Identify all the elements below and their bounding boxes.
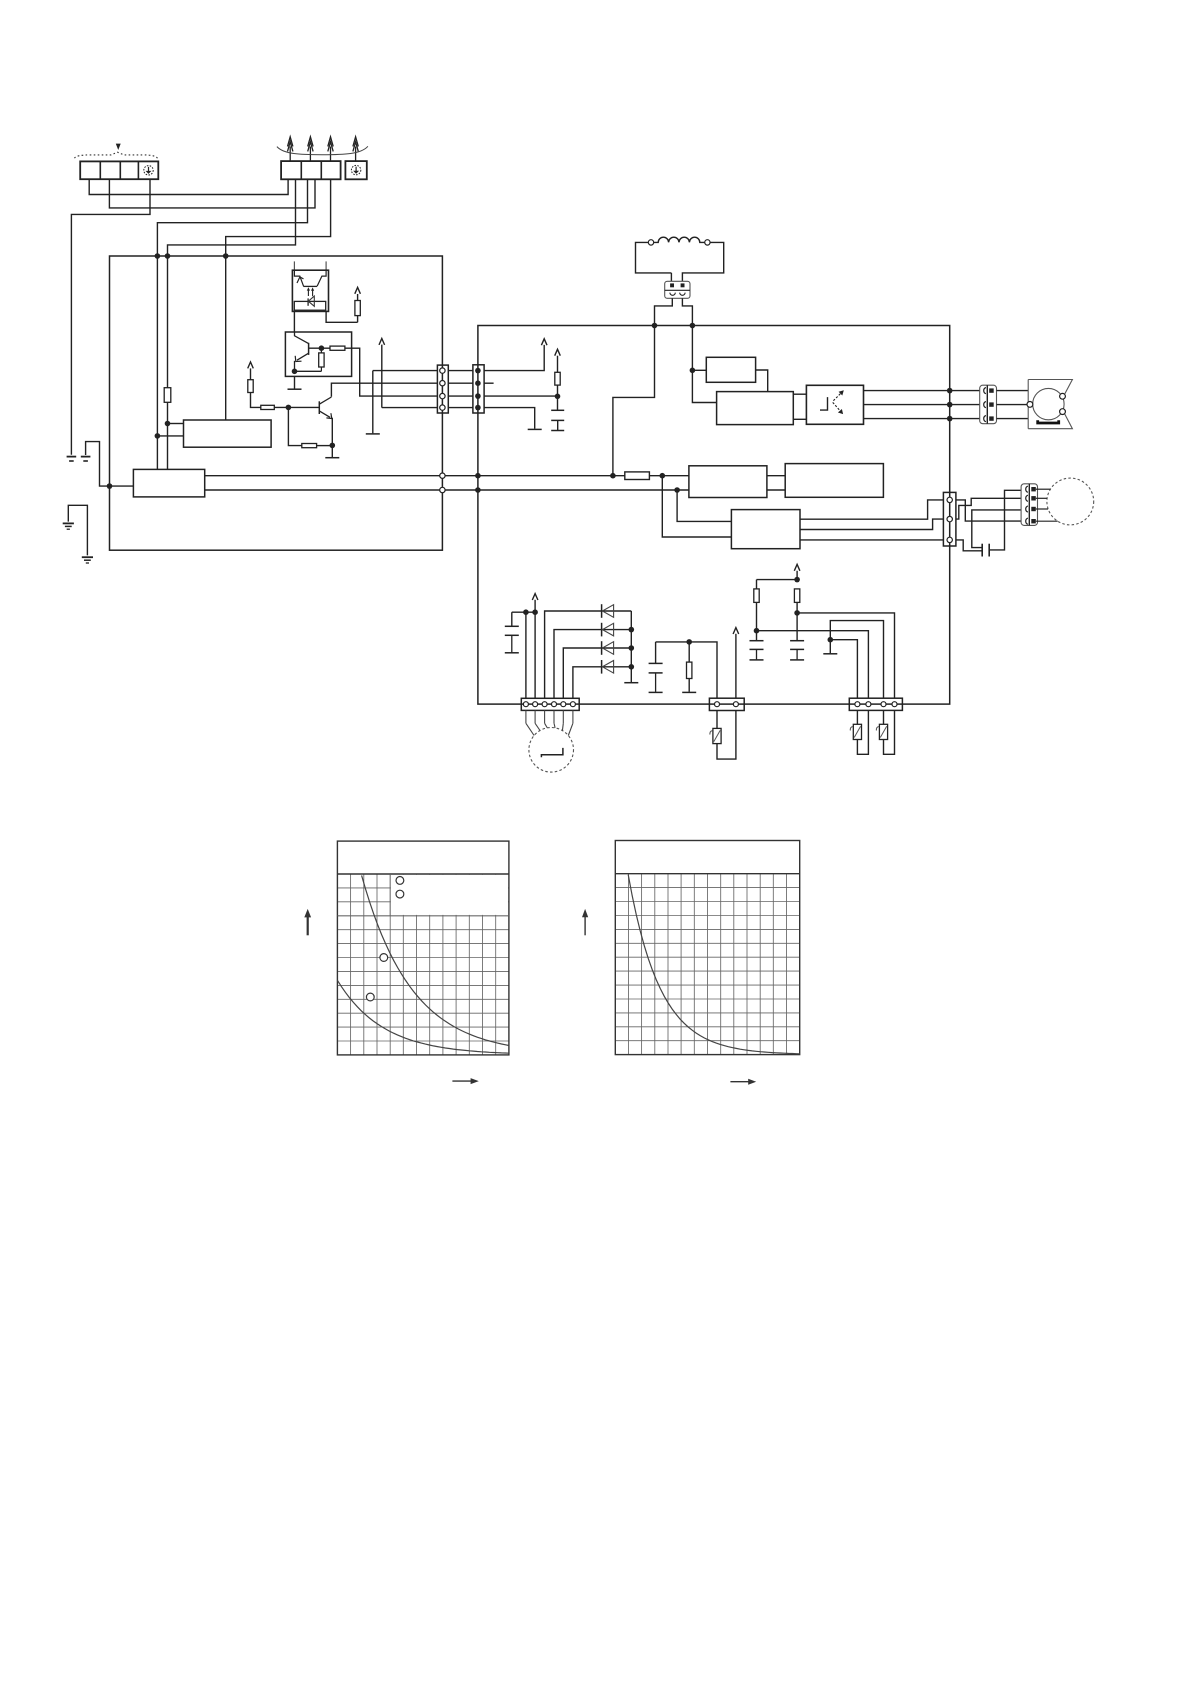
wire opto emitter to driver	[293, 311, 295, 332]
ground G10	[823, 653, 837, 655]
wire R9 node to CN8 pin4	[797, 613, 894, 698]
junction at Q1 base divider	[319, 345, 325, 351]
pass-through circle CN3 on link2	[440, 487, 445, 492]
wire CN4 pin3 to R4 node	[484, 395, 557, 397]
wire CN3 pin1 with ground	[373, 371, 438, 434]
connector CN4 (board-in, 4-pole)	[473, 365, 484, 413]
ground G7	[528, 428, 542, 430]
ground G6	[366, 433, 380, 435]
wire CN4 pin4 to ground	[484, 408, 535, 429]
connector CN7 (2-pole)	[709, 698, 744, 710]
connector CN2 (terminal board, 3-pole)	[281, 161, 341, 179]
wire capacitor to fan pin1	[989, 490, 1021, 550]
wire CN6 pin2 riser with supply arrow	[532, 594, 538, 699]
wire bus drop to IC1 pin b	[167, 256, 169, 469]
compressor terminal strip CN6 (6-pole)	[521, 698, 579, 710]
junction reactor left on board edge	[652, 323, 658, 329]
block B5	[731, 510, 800, 549]
marker triangle over CN1	[116, 144, 121, 150]
connector CN8 (4-pole)	[849, 698, 902, 710]
ground G3 chassis bond	[63, 505, 93, 563]
wire CN6 pin3 to diode D1	[545, 611, 632, 698]
junction out1 on board edge	[947, 388, 953, 394]
ground G5	[325, 457, 339, 459]
wire C4/R7 node to CN7 pin1	[656, 642, 717, 698]
thermistor TH3	[876, 710, 887, 739]
graph 2 x-axis arrow	[730, 1079, 756, 1085]
wire C3 to CN6 pins 1-2	[512, 611, 535, 613]
junction at Q1 emitter	[292, 369, 298, 375]
block B2	[717, 392, 794, 425]
junction drop to B5 upper	[674, 487, 680, 493]
diode D3	[602, 641, 614, 655]
connector CN5 (3-pole on board edge)	[943, 492, 956, 546]
junction on bus at x167	[165, 253, 171, 259]
wire CN6 pin1 riser	[525, 612, 527, 698]
wire R8 node to CN8 pin2	[757, 631, 869, 699]
wire B5 out2 to CN5 pin2	[800, 519, 943, 529]
graph 1 frame and grid	[337, 841, 509, 1055]
junction at Q2 emitter resistor	[330, 443, 336, 449]
wire sense chain to CN8 pin1	[830, 640, 857, 699]
capacitor C4 to chassis	[649, 642, 663, 693]
capacitor C6 to chassis	[790, 613, 804, 660]
resistor R2 with supply arrow	[248, 362, 261, 407]
junction on bus at x225	[223, 253, 229, 259]
junction and stub to IC2 lower	[155, 433, 161, 439]
capacitor C5 to chassis	[750, 631, 764, 660]
wire B5 out3 to CN5 pin3	[800, 539, 943, 541]
wire CN-L left to main board	[655, 298, 673, 325]
junction CN6 pin2 riser	[532, 609, 538, 615]
graph 1 y-axis arrow	[304, 909, 311, 935]
junction and stub to IC2 upper	[165, 421, 171, 427]
wire CN-COMP pin2 to compressor	[997, 404, 1027, 406]
ground G2 with link to board	[81, 442, 110, 487]
IC1 block	[133, 469, 204, 497]
graph 1 x-axis arrow	[452, 1078, 478, 1084]
wire CN5 pin2 to fan pin2	[956, 498, 1021, 519]
reactor L1 loop	[636, 237, 724, 281]
earth terminal box at CN2	[345, 161, 366, 179]
wire CN6 pin4 to diode D2	[554, 630, 631, 699]
wire CN-COMP pin3 to compressor	[997, 418, 1029, 420]
wire B4 to B6 upper	[767, 475, 785, 477]
dashed brace over CN1	[75, 152, 158, 158]
junction out2 on board edge	[947, 402, 953, 408]
wire CN5 pin3 to fan capacitor	[956, 540, 982, 551]
block B4	[689, 466, 767, 498]
wire board edge to IC1	[110, 485, 134, 487]
compressor motor MC	[1027, 380, 1072, 429]
ground G4	[288, 388, 302, 390]
junction CN6 pin1 riser	[523, 609, 529, 615]
junction on DC line	[610, 473, 616, 479]
graph 1 point marker B	[366, 993, 374, 1001]
junction reactor right on board edge	[690, 323, 696, 329]
connector CN-FAN (4-pole)	[1021, 484, 1037, 526]
connector CN-COMP (3-pole)	[980, 385, 997, 424]
wire DC link with fuse F1	[205, 472, 689, 480]
wire B1 to B2	[756, 370, 768, 392]
wire Q1 to ground	[294, 376, 296, 388]
wire CN1 pin2 to CN2 pin2	[109, 179, 315, 208]
wire reactor right leg down	[691, 326, 693, 371]
graph 2 y-axis arrow	[582, 909, 588, 935]
wire B2 to RY1 upper	[793, 393, 806, 395]
ground G1	[67, 457, 77, 461]
wire B2 to RY1 lower	[793, 418, 806, 420]
leads CN6 to protector	[526, 710, 573, 735]
ground G8	[624, 682, 638, 684]
pass-through circles CN3 lower on DC link	[440, 473, 445, 478]
control PCB outline (left board)	[110, 256, 443, 550]
wire CN6 pin5 to diode D3	[563, 648, 631, 698]
wire CN-L right to main board	[682, 298, 692, 325]
resistor R9	[794, 589, 799, 613]
wire drop to B5 lower entry	[662, 476, 731, 537]
resistor R1 with supply arrow	[355, 287, 361, 322]
wire Q2 emitter to junction	[331, 418, 333, 446]
wire CN4 pin2 stub	[484, 382, 494, 384]
wire drop to B5 upper entry	[677, 490, 731, 521]
optocoupler PC1	[292, 261, 328, 311]
wire reactor left leg to DC bus	[613, 326, 655, 476]
wire second link line	[205, 489, 689, 491]
wire CN4 pin1 with supply arrow	[484, 339, 547, 371]
junction on bus at x157	[155, 253, 161, 259]
graph 1 legend markers	[396, 877, 404, 898]
junction on board edge	[107, 483, 113, 489]
wire junction into block B2	[692, 370, 716, 402]
wire RY1 out 2	[864, 404, 980, 406]
wire TH2 loop to CN8 pin2	[857, 710, 868, 754]
wire fan pin3 to capacitor	[972, 510, 1021, 548]
junction drop to block B5 lower	[660, 473, 666, 479]
graph 2 curve	[628, 875, 800, 1054]
wire CN5 pin1 to fan pin4	[956, 500, 1021, 521]
wire B4 to B6 lower	[767, 489, 785, 491]
junction at Q2 base	[286, 405, 292, 411]
diode common bus to ground	[629, 611, 635, 682]
IC2 block	[184, 420, 272, 447]
resistor R7 to chassis	[682, 642, 696, 693]
wire CN6 pin6 to diode D4	[573, 667, 631, 699]
resistor R8	[754, 580, 759, 631]
junction at arrow node	[794, 577, 800, 583]
wire arrow node to R8	[757, 579, 798, 581]
junction at R7 top	[686, 639, 692, 645]
relay RY1	[806, 385, 863, 424]
wire CN3 pin4 with supply arrow	[379, 339, 437, 408]
wire bus drop to IC1 pin a	[156, 256, 158, 469]
thermistor TH2	[850, 710, 861, 739]
wire CN2 pin3 to control bus	[226, 179, 331, 256]
wire driver output to CN3 pin3	[345, 348, 438, 396]
main PCB outline (right board)	[478, 326, 950, 705]
junction CN4 on link2	[475, 487, 481, 493]
wire to ground G5	[331, 445, 333, 457]
diode D2	[602, 623, 614, 637]
wire Q2 collector to CN3 pin2	[331, 383, 437, 397]
brace arc under supply arrows	[277, 146, 368, 154]
wires CN3 to CN4 pins	[448, 371, 473, 408]
wire CN2 pin2a to control bus	[157, 179, 307, 256]
wire RY1 out 3	[864, 418, 980, 420]
wire TH1 loop to CN7 pin2	[717, 710, 736, 759]
wire CN1 earth pin to ground	[71, 179, 150, 455]
wire CN7 pin2 riser with supply arrow	[733, 628, 739, 699]
resistor R4 with supply arrow	[555, 349, 561, 396]
wire CN1 pin1 to CN2 pin1	[89, 179, 288, 194]
junction at R8 bottom	[754, 628, 760, 634]
wires CN-FAN to fan motor	[1036, 489, 1058, 521]
block B6	[785, 464, 883, 498]
junction on sense chain	[828, 637, 834, 643]
wire R3 to Q2 base	[274, 406, 319, 408]
supply arrow over R8/R9	[794, 564, 800, 579]
connector CN3 (board-in, 4-pole)	[437, 365, 448, 413]
wire opto cathode to R1	[326, 311, 358, 322]
driver block Q1 (PNP buffer)	[285, 332, 351, 376]
resistor R6 emitter feedback	[288, 407, 332, 447]
graph 1 point marker A	[380, 954, 388, 962]
wire CN-COMP pin1 to compressor	[997, 390, 1029, 392]
junction at R4 bottom	[555, 394, 561, 400]
diode D1	[602, 604, 614, 618]
wire B5 out1 to CN5 pin1	[800, 500, 943, 519]
junction out3 on board edge	[947, 416, 953, 422]
thermistor TH1	[710, 710, 721, 743]
fan capacitor C-FAN	[982, 544, 989, 557]
compressor protector circle	[529, 728, 574, 773]
resistor R10	[164, 388, 171, 403]
resistor R3	[261, 405, 275, 409]
junction at block B1	[690, 368, 696, 374]
wire RY1 out 1	[864, 390, 980, 392]
connector CN-L (2-pole)	[665, 281, 690, 298]
earth terminal symbol in CN1	[144, 166, 153, 175]
wire bus drop to IC2	[225, 256, 227, 420]
graph 1 curve B	[337, 980, 509, 1053]
connector CN1 (terminal board, 4-pole)	[80, 161, 158, 179]
supply arrows above CN2	[288, 137, 359, 161]
capacitor C2 to chassis	[551, 396, 564, 430]
diode D4	[602, 660, 614, 674]
transistor Q2 (NPN)	[319, 397, 332, 419]
junction at R9 bottom	[794, 610, 800, 616]
graph 2 frame and grid	[615, 841, 799, 1055]
wire sense chain to CN8 pin3	[830, 621, 883, 699]
wire CN2 pin1b to control bus	[168, 179, 296, 256]
block B1	[692, 357, 755, 382]
capacitor C3 to chassis	[505, 612, 519, 653]
wire TH3 loop to CN8 pin4	[884, 710, 895, 754]
graph 1 curve A	[362, 875, 509, 1045]
junction CN4 lower on DC link	[475, 473, 481, 479]
fan motor MF (dashed circle)	[1047, 478, 1094, 525]
